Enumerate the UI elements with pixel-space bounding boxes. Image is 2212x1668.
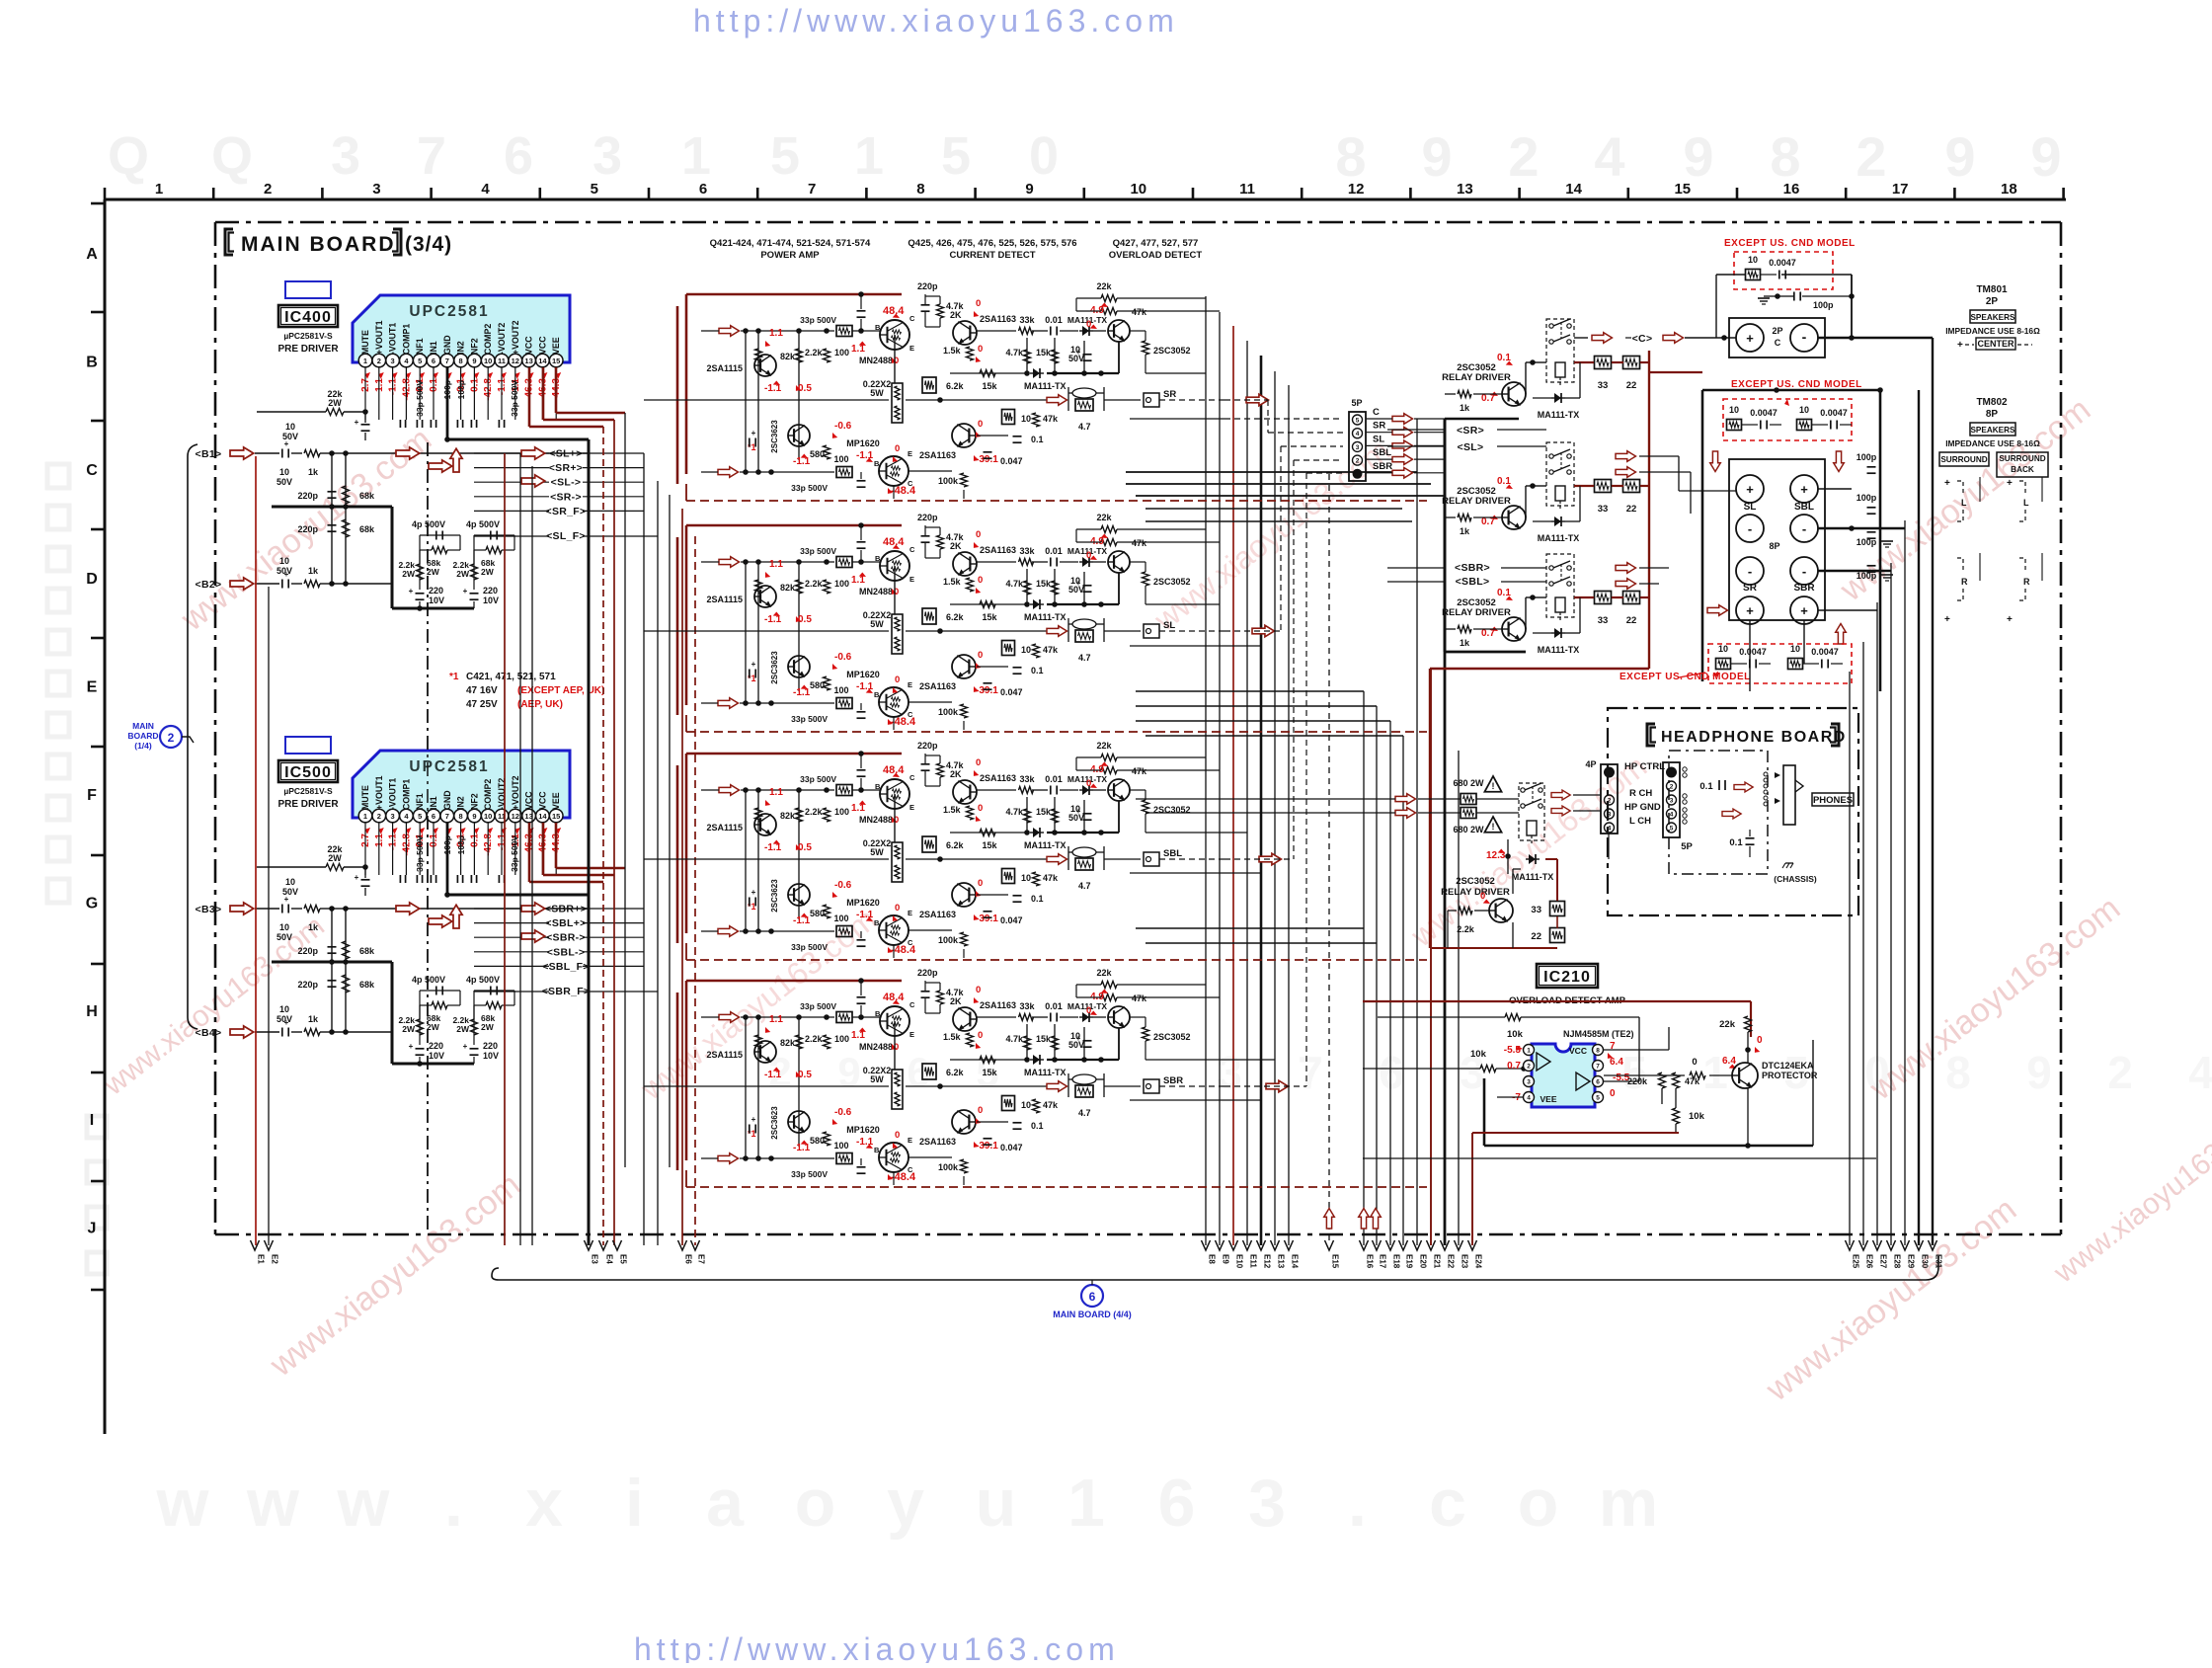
svg-text:4.7: 4.7 — [1078, 653, 1091, 663]
svg-text:NF1: NF1 — [415, 793, 425, 810]
svg-text:15k: 15k — [1036, 348, 1052, 357]
svg-text:(AEP, UK): (AEP, UK) — [517, 699, 563, 710]
svg-text:47k: 47k — [1043, 414, 1059, 424]
svg-text:11: 11 — [498, 357, 506, 365]
svg-text:+: + — [1746, 331, 1754, 346]
svg-text:220p: 220p — [297, 524, 318, 534]
svg-text:5: 5 — [1356, 418, 1360, 425]
svg-text:18: 18 — [2001, 181, 2017, 198]
svg-text:L CH: L CH — [1629, 816, 1651, 827]
svg-text:VEE: VEE — [551, 337, 561, 355]
svg-text:+: + — [409, 587, 414, 596]
svg-text:1k: 1k — [308, 922, 319, 932]
svg-text:22k: 22k — [1096, 968, 1112, 978]
svg-text:3: 3 — [1608, 812, 1612, 819]
svg-text:4: 4 — [1527, 1095, 1531, 1102]
svg-text:<C>: <C> — [1632, 333, 1653, 345]
svg-text:-1.1: -1.1 — [856, 910, 874, 920]
svg-text:1k: 1k — [308, 1014, 319, 1024]
svg-text:10: 10 — [285, 877, 295, 887]
svg-text:10k: 10k — [1507, 1029, 1524, 1040]
svg-text:12: 12 — [512, 812, 519, 821]
svg-text:10: 10 — [279, 1004, 289, 1014]
svg-text:2SA1163: 2SA1163 — [919, 450, 956, 460]
svg-text:5W: 5W — [870, 1074, 884, 1084]
svg-text:SBR: SBR — [1163, 1075, 1183, 1086]
svg-text:0: 0 — [976, 985, 981, 995]
svg-text:0: 0 — [1029, 126, 1059, 186]
svg-text:33: 33 — [1598, 504, 1609, 515]
svg-text:!: ! — [1492, 781, 1495, 791]
svg-text:10: 10 — [279, 556, 289, 566]
svg-text:48.4: 48.4 — [883, 992, 905, 1003]
svg-text:47k: 47k — [1132, 538, 1147, 548]
svg-text:MP1620: MP1620 — [846, 670, 880, 679]
svg-text:TM802: TM802 — [1976, 397, 2008, 408]
svg-text:B: B — [875, 323, 881, 332]
svg-text:(1/4): (1/4) — [134, 741, 152, 751]
svg-text:C: C — [909, 314, 915, 323]
svg-text:+: + — [355, 418, 359, 427]
svg-text:10V: 10V — [483, 596, 499, 605]
svg-text:MAIN BOARD: MAIN BOARD — [241, 233, 396, 256]
svg-text:0.01: 0.01 — [1045, 1001, 1063, 1011]
svg-text:COMP2: COMP2 — [483, 779, 493, 810]
svg-text:3: 3 — [331, 126, 360, 186]
svg-text:+: + — [1076, 348, 1081, 357]
svg-text:0: 0 — [895, 1130, 900, 1141]
svg-text:2K: 2K — [950, 310, 962, 320]
svg-text:TM801: TM801 — [1976, 284, 2008, 295]
svg-text:100: 100 — [833, 454, 848, 464]
svg-text:<SL+>: <SL+> — [549, 448, 582, 460]
svg-text:10: 10 — [484, 812, 492, 821]
svg-text:C: C — [1373, 407, 1380, 418]
svg-text:2SA1115: 2SA1115 — [706, 363, 743, 373]
svg-text:<SBL>: <SBL> — [1456, 576, 1490, 588]
svg-text:100: 100 — [834, 579, 849, 589]
svg-text:<SL->: <SL-> — [551, 477, 582, 489]
svg-text:0.01: 0.01 — [1045, 546, 1063, 556]
svg-text:10: 10 — [1790, 644, 1800, 654]
svg-text:33p 500V: 33p 500V — [800, 1001, 836, 1011]
svg-text:100k: 100k — [938, 935, 959, 945]
svg-text:12: 12 — [1348, 181, 1365, 198]
svg-text:EXCEPT US. CND MODEL: EXCEPT US. CND MODEL — [1619, 672, 1751, 682]
svg-text:100p: 100p — [1856, 493, 1877, 503]
svg-text:y: y — [887, 1466, 924, 1541]
svg-text:33: 33 — [1598, 615, 1609, 626]
svg-text:<SL>: <SL> — [1458, 441, 1484, 453]
svg-text:MA111-TX: MA111-TX — [1024, 612, 1066, 622]
svg-text:w: w — [337, 1466, 391, 1541]
svg-text:220: 220 — [483, 586, 498, 596]
svg-text:B: B — [875, 554, 881, 563]
svg-text:1: 1 — [363, 357, 367, 365]
svg-text:<SBL_F>: <SBL_F> — [542, 961, 590, 973]
svg-text:5: 5 — [418, 357, 422, 365]
svg-text:-1.1: -1.1 — [856, 1137, 874, 1148]
svg-text:E12: E12 — [1263, 1254, 1272, 1269]
svg-text:220p: 220p — [297, 946, 318, 956]
svg-text:2.2k: 2.2k — [805, 579, 824, 589]
svg-text:-39.1: -39.1 — [976, 913, 998, 924]
svg-text:22: 22 — [1531, 931, 1541, 942]
svg-text:10: 10 — [1718, 644, 1728, 654]
svg-text:7: 7 — [808, 181, 816, 198]
svg-text:4.7k: 4.7k — [1005, 1034, 1024, 1044]
svg-text:15k: 15k — [1036, 579, 1052, 589]
svg-text:<SR_F>: <SR_F> — [546, 506, 587, 517]
svg-text:1: 1 — [681, 126, 711, 186]
svg-text:0: 0 — [978, 1105, 983, 1116]
svg-text:MN2488: MN2488 — [859, 587, 893, 596]
svg-text:G: G — [86, 896, 98, 913]
svg-text:5: 5 — [770, 126, 800, 186]
svg-text:68k: 68k — [359, 491, 375, 501]
svg-text:.: . — [1348, 1466, 1367, 1541]
svg-text:F: F — [87, 787, 97, 804]
svg-text:22k: 22k — [1719, 1019, 1736, 1030]
svg-text:2SC3623: 2SC3623 — [770, 1106, 779, 1140]
svg-text:E16: E16 — [1366, 1254, 1375, 1269]
svg-text:9: 9 — [1025, 181, 1033, 198]
svg-text:10: 10 — [1729, 405, 1739, 415]
svg-text:1.1: 1.1 — [769, 328, 783, 339]
svg-text:6: 6 — [699, 181, 707, 198]
svg-text:SPEAKERS: SPEAKERS — [1970, 426, 2015, 435]
svg-text:6.2k: 6.2k — [946, 1068, 965, 1077]
svg-text:9: 9 — [1944, 125, 1975, 188]
svg-text:COMP1: COMP1 — [401, 324, 411, 355]
svg-text:3: 3 — [1670, 798, 1674, 805]
svg-text:0: 0 — [895, 675, 900, 685]
svg-text:2W: 2W — [481, 567, 495, 577]
svg-text:4P: 4P — [1585, 759, 1596, 769]
svg-text:<B4>: <B4> — [196, 1027, 222, 1039]
svg-text:14: 14 — [538, 357, 547, 365]
svg-text:220p: 220p — [917, 513, 938, 522]
svg-text:E20: E20 — [1419, 1254, 1428, 1269]
svg-text:c: c — [1429, 1466, 1466, 1541]
svg-text:47 25V: 47 25V — [466, 699, 498, 710]
svg-text:A: A — [86, 246, 98, 263]
svg-text:MP1620: MP1620 — [846, 898, 880, 908]
svg-text:1: 1 — [1702, 1047, 1728, 1098]
svg-text:2SA1115: 2SA1115 — [706, 1050, 743, 1060]
svg-text:10k: 10k — [1689, 1111, 1705, 1122]
svg-text:33: 33 — [1531, 905, 1541, 915]
svg-text:RELAY DRIVER: RELAY DRIVER — [1442, 372, 1511, 383]
svg-text:SURROUND: SURROUND — [1940, 455, 1987, 464]
svg-text:+VOUT2: +VOUT2 — [511, 775, 520, 810]
svg-text:+: + — [1076, 1034, 1081, 1043]
svg-text:50V: 50V — [276, 932, 292, 942]
svg-text:47k: 47k — [1132, 307, 1147, 317]
svg-text:47k: 47k — [1132, 766, 1147, 776]
svg-text:x: x — [525, 1466, 563, 1541]
svg-text:<SBR+>: <SBR+> — [545, 904, 587, 915]
svg-text:2SA1163: 2SA1163 — [980, 1000, 1016, 1010]
svg-text:220: 220 — [429, 1041, 443, 1051]
svg-text:15: 15 — [552, 357, 560, 365]
svg-text:15k: 15k — [982, 840, 997, 850]
svg-text:E: E — [909, 1030, 914, 1039]
svg-text:6: 6 — [432, 812, 435, 821]
svg-text:0: 0 — [1757, 1035, 1763, 1046]
svg-text:7: 7 — [1298, 1047, 1323, 1098]
svg-text:-48.4: -48.4 — [891, 1171, 916, 1183]
svg-text:IN1: IN1 — [429, 341, 438, 355]
svg-text:Q421-424, 471-474, 521-524, 57: Q421-424, 471-474, 521-524, 571-574 — [710, 238, 871, 249]
svg-text:9: 9 — [837, 1049, 860, 1095]
svg-text:2: 2 — [1508, 125, 1539, 188]
svg-text:10V: 10V — [429, 1051, 444, 1061]
svg-text:50V: 50V — [276, 566, 292, 576]
svg-text:8: 8 — [1596, 1048, 1600, 1055]
svg-text:1.5k: 1.5k — [943, 1032, 962, 1042]
svg-text:4p 500V: 4p 500V — [466, 975, 500, 985]
svg-text:680 2W: 680 2W — [1453, 825, 1484, 834]
svg-text:-: - — [1748, 564, 1752, 579]
svg-text:68k: 68k — [359, 946, 375, 956]
svg-text:0.1: 0.1 — [1031, 435, 1044, 444]
svg-text:6.4: 6.4 — [1610, 1057, 1623, 1068]
svg-text:1: 1 — [1527, 1048, 1531, 1055]
svg-text:47k: 47k — [1043, 873, 1059, 883]
svg-text:4: 4 — [2188, 1047, 2212, 1098]
svg-text:-VOUT2: -VOUT2 — [497, 323, 507, 355]
svg-text:10: 10 — [1799, 405, 1809, 415]
svg-text:E: E — [908, 449, 912, 458]
svg-text:3: 3 — [372, 181, 380, 198]
svg-text:2SA1163: 2SA1163 — [919, 910, 956, 919]
svg-text:-1.1: -1.1 — [856, 681, 874, 692]
svg-text:MP1620: MP1620 — [846, 438, 880, 448]
svg-text:22k: 22k — [1096, 513, 1112, 522]
svg-text:<SR->: <SR-> — [550, 491, 582, 503]
svg-text:2: 2 — [1670, 784, 1674, 791]
svg-text:8P: 8P — [1769, 541, 1779, 551]
svg-text:MN2488: MN2488 — [859, 1042, 893, 1052]
svg-text:E19: E19 — [1405, 1254, 1414, 1269]
svg-text:2SC3052: 2SC3052 — [1456, 876, 1495, 887]
svg-text:10: 10 — [1748, 255, 1758, 265]
svg-text:6.2k: 6.2k — [946, 381, 965, 391]
svg-text:+VOUT1: +VOUT1 — [374, 775, 384, 810]
svg-text:0: 0 — [978, 878, 983, 889]
svg-text:R: R — [2023, 577, 2030, 587]
svg-text:+: + — [284, 895, 289, 904]
svg-text:33p 500V: 33p 500V — [791, 714, 828, 724]
svg-text:5P: 5P — [1351, 398, 1362, 408]
svg-text:33p 500V: 33p 500V — [791, 483, 828, 493]
svg-text:3: 3 — [391, 812, 395, 821]
svg-text:0.0047: 0.0047 — [1750, 408, 1777, 418]
svg-text:6: 6 — [1596, 1079, 1600, 1086]
svg-text:HP GND: HP GND — [1624, 802, 1661, 813]
svg-text:0: 0 — [895, 443, 900, 454]
svg-text:MA111-TX: MA111-TX — [1512, 872, 1554, 882]
svg-text:0.047: 0.047 — [1000, 456, 1023, 466]
svg-text:2SC3623: 2SC3623 — [770, 651, 779, 684]
svg-text:CURRENT DETECT: CURRENT DETECT — [949, 250, 1035, 261]
svg-text:2K: 2K — [950, 769, 962, 779]
svg-text:5P: 5P — [1681, 841, 1693, 852]
svg-text:Q: Q — [108, 126, 149, 186]
svg-text:4p 500V: 4p 500V — [412, 975, 445, 985]
svg-text:5W: 5W — [870, 619, 884, 629]
svg-text:2: 2 — [2107, 1047, 2133, 1098]
svg-text:+: + — [1957, 340, 1963, 351]
svg-text:33p 500V: 33p 500V — [800, 546, 836, 556]
svg-text:+: + — [1076, 579, 1081, 588]
svg-text:MAIN: MAIN — [132, 721, 154, 731]
svg-text:0: 0 — [976, 757, 981, 768]
svg-text:MA111-TX: MA111-TX — [1024, 840, 1066, 850]
svg-text:SBL: SBL — [1163, 848, 1182, 859]
svg-text:100: 100 — [833, 685, 848, 695]
svg-text:2SA1163: 2SA1163 — [980, 545, 1016, 555]
svg-text:2W: 2W — [427, 567, 440, 577]
svg-text:0: 0 — [1480, 891, 1485, 902]
svg-text:C: C — [909, 773, 915, 782]
svg-text:50V: 50V — [276, 1014, 292, 1024]
svg-text:SR: SR — [1373, 421, 1385, 432]
svg-text:22k: 22k — [1096, 281, 1112, 291]
svg-text:68k: 68k — [359, 980, 375, 990]
svg-text:*1: *1 — [449, 672, 459, 682]
svg-text:17: 17 — [1892, 181, 1909, 198]
svg-text:4p 500V: 4p 500V — [412, 519, 445, 529]
svg-text:0.0047: 0.0047 — [1769, 258, 1796, 268]
svg-text:33p 500V: 33p 500V — [791, 1169, 828, 1179]
svg-text:7: 7 — [417, 126, 446, 186]
svg-text:2.2k: 2.2k — [805, 348, 824, 357]
svg-text:5W: 5W — [870, 388, 884, 398]
svg-text:82k: 82k — [780, 583, 796, 593]
svg-text:1.5k: 1.5k — [943, 577, 962, 587]
svg-text:0: 0 — [978, 1030, 983, 1041]
svg-text:µPC2581V-S: µPC2581V-S — [283, 331, 333, 341]
svg-text:-39.1: -39.1 — [976, 685, 998, 696]
svg-text:2W: 2W — [328, 398, 342, 408]
svg-text:8: 8 — [1335, 125, 1366, 188]
svg-text:5: 5 — [591, 181, 598, 198]
svg-text:I: I — [90, 1112, 94, 1129]
svg-text:L: L — [2023, 498, 2029, 508]
svg-text:13: 13 — [524, 357, 532, 365]
svg-text:C: C — [86, 462, 98, 479]
svg-text:22: 22 — [1626, 380, 1637, 391]
svg-text:0: 0 — [978, 650, 983, 661]
svg-text:9: 9 — [1421, 125, 1452, 188]
svg-text:-1.1: -1.1 — [793, 687, 811, 698]
svg-text:2SA1115: 2SA1115 — [706, 823, 743, 833]
svg-text:VCC: VCC — [537, 336, 547, 355]
svg-text:UPC2581: UPC2581 — [409, 303, 489, 320]
svg-text:E21: E21 — [1433, 1254, 1442, 1269]
svg-text:0.0047: 0.0047 — [1739, 647, 1767, 657]
svg-text:+: + — [751, 429, 756, 437]
svg-text:15: 15 — [552, 812, 560, 821]
svg-text:6.2k: 6.2k — [946, 840, 965, 850]
svg-text:E: E — [909, 803, 914, 812]
svg-text:E11: E11 — [1249, 1254, 1258, 1268]
svg-text:100k: 100k — [938, 1162, 959, 1172]
svg-text:IN1: IN1 — [429, 796, 438, 810]
svg-text:i: i — [625, 1466, 644, 1541]
svg-text:33p 500V: 33p 500V — [800, 315, 836, 325]
svg-text:9: 9 — [2030, 125, 2061, 188]
svg-text:220p: 220p — [297, 980, 318, 990]
svg-text:0: 0 — [976, 298, 981, 309]
svg-text:COMP1: COMP1 — [401, 779, 411, 810]
svg-text:MA111-TX: MA111-TX — [1538, 533, 1580, 543]
svg-text:0: 0 — [978, 803, 983, 814]
svg-text:+: + — [409, 1042, 414, 1051]
svg-text:+: + — [1944, 478, 1950, 489]
svg-text:<SBR->: <SBR-> — [546, 932, 586, 944]
svg-text:B: B — [874, 459, 880, 468]
svg-text:J: J — [88, 1220, 97, 1236]
svg-text:6: 6 — [504, 126, 533, 186]
svg-text:47k: 47k — [1043, 1100, 1059, 1110]
svg-text:680 2W: 680 2W — [1453, 778, 1484, 788]
svg-text:<SR>: <SR> — [1457, 425, 1484, 437]
svg-text:15k: 15k — [982, 1068, 997, 1077]
svg-text:7: 7 — [445, 357, 449, 365]
svg-text:MA111-TX: MA111-TX — [1538, 410, 1580, 420]
svg-text:POWER AMP: POWER AMP — [760, 250, 820, 261]
svg-text:E: E — [908, 680, 912, 689]
svg-text:0.1: 0.1 — [1031, 1121, 1044, 1131]
svg-text:http://www.xiaoyu163.com: http://www.xiaoyu163.com — [693, 3, 1179, 39]
svg-text:220p: 220p — [917, 281, 938, 291]
svg-text:+: + — [2007, 614, 2013, 625]
svg-text:http://www.xiaoyu163.com: http://www.xiaoyu163.com — [634, 1631, 1120, 1663]
svg-text:50V: 50V — [276, 477, 292, 487]
svg-text:GND: GND — [442, 335, 452, 355]
svg-text:0.5: 0.5 — [798, 383, 812, 394]
svg-text:MN2488: MN2488 — [859, 356, 893, 365]
svg-text:11: 11 — [1239, 181, 1255, 198]
svg-text:2K: 2K — [950, 996, 962, 1006]
svg-text:B: B — [875, 1009, 881, 1018]
svg-text:8: 8 — [1770, 125, 1800, 188]
svg-text:10: 10 — [279, 467, 289, 477]
svg-text:48.4: 48.4 — [883, 536, 905, 548]
svg-text:15k: 15k — [1036, 1034, 1052, 1044]
svg-text:SBL: SBL — [1373, 447, 1391, 458]
svg-text:2: 2 — [377, 357, 381, 365]
svg-text:E7: E7 — [697, 1254, 706, 1264]
svg-text:2SC3623: 2SC3623 — [770, 879, 779, 913]
svg-text:SL: SL — [1744, 502, 1757, 513]
svg-text:-: - — [1748, 521, 1752, 536]
svg-text:IC400: IC400 — [284, 309, 332, 326]
svg-text:o: o — [795, 1466, 836, 1541]
svg-text:4: 4 — [1670, 812, 1674, 819]
svg-text:RELAY DRIVER: RELAY DRIVER — [1441, 887, 1510, 898]
svg-text:10: 10 — [1130, 181, 1146, 198]
svg-text:E: E — [908, 909, 912, 917]
svg-text:0.1: 0.1 — [1729, 837, 1743, 848]
svg-text:2: 2 — [1856, 125, 1886, 188]
svg-text:HP CTRL: HP CTRL — [1624, 761, 1665, 772]
svg-text:8: 8 — [459, 357, 463, 365]
svg-text:0.1: 0.1 — [1699, 781, 1713, 792]
